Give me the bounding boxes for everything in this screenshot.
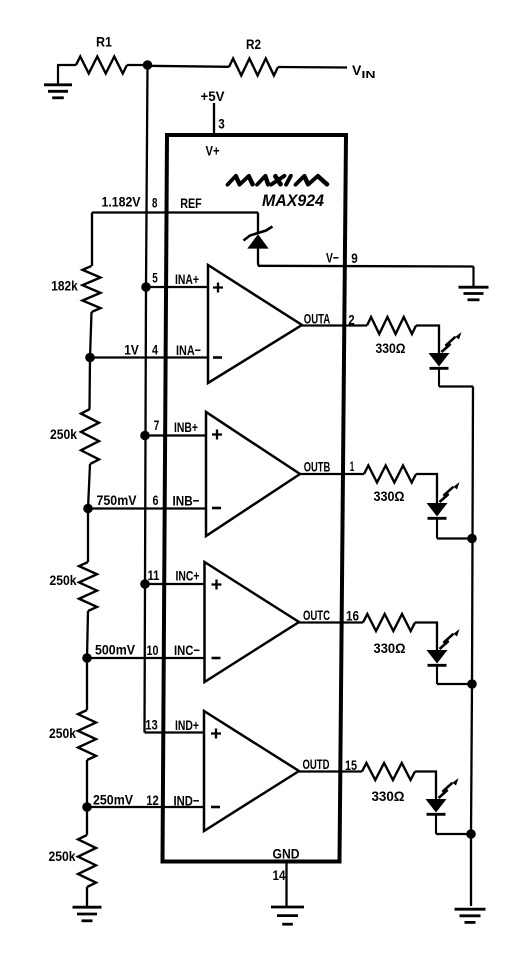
LED B — [427, 503, 448, 517]
LED D — [426, 799, 447, 813]
wire junction to comparator + inputs (vertical) — [145, 65, 148, 733]
ground (LED rail bottom) — [455, 909, 486, 922]
resistor 250k (3) — [78, 710, 96, 760]
wire LED cathode rail (right) — [471, 387, 473, 907]
svg-text:9: 9 — [351, 250, 358, 266]
wire node to R2 — [147, 66, 229, 67]
node INC+ junction — [140, 579, 150, 589]
svg-text:250k: 250k — [49, 848, 76, 864]
wire 250k-1 to 750mV tap — [88, 464, 90, 509]
LED C — [427, 650, 448, 664]
ground (ladder bottom) — [73, 907, 102, 921]
wire 250k-3 to 250mV tap — [86, 760, 88, 807]
resistor 250k (4) — [78, 835, 96, 887]
wire REF corner to 182k — [91, 213, 93, 267]
wire LED B to rail — [437, 537, 472, 539]
svg-text:V+: V+ — [206, 143, 220, 159]
svg-text:INB+: INB+ — [174, 419, 198, 435]
wire LED D to rail — [436, 833, 471, 835]
resistor 330ohm A — [367, 317, 416, 334]
op-amp IC U1 MAX924 package outline — [163, 135, 347, 862]
svg-text:750mV: 750mV — [97, 492, 138, 508]
wire LED A to rail — [439, 385, 473, 387]
svg-text:IND−: IND− — [174, 793, 200, 809]
wire OUTD (pin 15) — [299, 770, 362, 772]
svg-text:OUTB: OUTB — [304, 459, 331, 475]
resistor R1 — [76, 57, 127, 74]
wire LED C to rail — [437, 683, 472, 685]
wire IND- 250mV (pin 12) — [87, 806, 204, 808]
svg-text:6: 6 — [153, 492, 159, 508]
wire INB- 750mV (pin 6) — [88, 507, 206, 509]
wire +5V to pin 3 — [213, 103, 215, 134]
svg-text:INC−: INC− — [174, 642, 200, 658]
resistor 250k (1) — [81, 409, 99, 464]
op-amp comparator D — [204, 711, 299, 831]
node 750mV tap — [83, 504, 93, 514]
svg-text:8: 8 — [152, 195, 158, 211]
node 250mV tap — [82, 802, 92, 812]
ground (IC GND) — [271, 907, 304, 924]
wire 250k-4 to ground — [86, 887, 88, 907]
svg-text:IN: IN — [362, 70, 376, 81]
svg-text:+5V: +5V — [201, 88, 226, 104]
wire GND (pin 14) to ground — [285, 861, 287, 906]
resistor 330ohm C — [363, 614, 415, 631]
svg-text:OUTC: OUTC — [303, 607, 330, 623]
svg-text:16: 16 — [346, 608, 359, 624]
svg-text:1V: 1V — [124, 342, 139, 358]
svg-text:13: 13 — [145, 717, 158, 733]
svg-text:REF: REF — [180, 195, 202, 211]
svg-text:1: 1 — [350, 458, 355, 474]
node LED D / rail junction — [466, 829, 476, 839]
ground (V-) — [472, 267, 474, 287]
svg-text:330Ω: 330Ω — [374, 640, 406, 656]
wire 330ohm A to LED A — [416, 326, 439, 354]
svg-text:15: 15 — [345, 757, 357, 773]
resistor 250k (2) — [79, 562, 97, 611]
svg-text:5: 5 — [152, 270, 158, 286]
wire INB+ (pin 7) — [145, 434, 206, 436]
wire 750mV tap to 250k-2 — [87, 509, 89, 563]
svg-text:V−: V− — [326, 250, 339, 266]
node INA+ junction — [141, 282, 151, 292]
svg-text:INA+: INA+ — [175, 271, 199, 287]
svg-text:INB−: INB− — [173, 493, 200, 509]
resistor 330ohm B — [364, 466, 416, 483]
wire 250k-2 to 500mV tap — [87, 611, 88, 658]
svg-text:330Ω: 330Ω — [372, 788, 405, 804]
svg-text:4: 4 — [152, 342, 158, 358]
resistor 182k — [83, 266, 101, 312]
node 500mV tap — [82, 653, 92, 663]
svg-text:330Ω: 330Ω — [376, 340, 406, 356]
node R1/R2 junction — [143, 60, 153, 70]
node 1V tap — [85, 353, 95, 363]
svg-text:330Ω: 330Ω — [374, 488, 405, 504]
wire OUTB (pin 1) — [300, 473, 364, 475]
wire 330ohm C to LED C — [415, 623, 437, 651]
svg-text:INA−: INA− — [176, 342, 201, 358]
MAXIM logo — [228, 176, 329, 185]
wire 250mV tap to 250k-4 — [86, 807, 88, 835]
svg-text:11: 11 — [148, 567, 160, 583]
svg-text:OUTA: OUTA — [304, 311, 331, 327]
svg-text:10: 10 — [147, 642, 159, 658]
svg-text:250mV: 250mV — [93, 792, 134, 808]
svg-text:1.182V: 1.182V — [102, 194, 142, 210]
svg-text:182k: 182k — [51, 278, 78, 294]
op-amp comparator C — [205, 562, 300, 682]
resistor 330ohm D — [362, 763, 415, 780]
svg-text:R2: R2 — [246, 36, 261, 52]
wire REF (pin 8) to ladder and zener — [92, 211, 258, 213]
svg-text:12: 12 — [146, 792, 159, 808]
wire 330ohm D to LED D — [415, 772, 436, 800]
svg-text:3: 3 — [218, 116, 225, 132]
svg-text:OUTD: OUTD — [303, 756, 330, 772]
svg-text:INC+: INC+ — [176, 568, 200, 584]
wire ground to R1 — [57, 64, 76, 66]
wire zener to V- pin 9 and right ground — [258, 265, 474, 268]
svg-text:R1: R1 — [96, 34, 112, 50]
zener reference diode — [257, 213, 259, 235]
wire 182k to 1V tap — [90, 312, 92, 358]
svg-text:MAX924: MAX924 — [262, 192, 324, 210]
wire OUTA (pin 2) — [302, 324, 367, 326]
ground (input divider, top left) — [57, 65, 59, 84]
node LED C / rail junction — [467, 679, 477, 689]
op-amp comparator A — [208, 265, 302, 383]
resistor R2 — [229, 59, 278, 76]
node LED B / rail junction — [467, 534, 477, 544]
svg-text:GND: GND — [273, 846, 300, 862]
wire R1 to node — [127, 64, 148, 66]
svg-text:7: 7 — [154, 417, 160, 433]
svg-text:250k: 250k — [50, 572, 77, 588]
wire IND+ (pin 13) — [145, 731, 205, 733]
wire OUTC (pin 16) — [299, 621, 363, 623]
svg-text:250k: 250k — [50, 426, 77, 442]
wire INC- 500mV (pin 10) — [87, 657, 205, 659]
wire INC+ (pin 11) — [145, 583, 205, 585]
wire 500mV tap to 250k-3 — [86, 658, 88, 710]
svg-text:2: 2 — [348, 312, 354, 328]
svg-text:500mV: 500mV — [95, 642, 136, 658]
svg-text:V: V — [352, 62, 362, 78]
wire INA+ (pin 5) — [146, 286, 208, 288]
wire INA- 1V (pin 4) — [90, 356, 208, 358]
svg-text:250k: 250k — [49, 725, 76, 741]
svg-text:IND+: IND+ — [175, 717, 199, 733]
wire R2 to VIN — [278, 66, 347, 69]
node INB+ junction — [140, 431, 150, 441]
wire 330ohm B to LED B — [416, 474, 437, 503]
svg-text:14: 14 — [273, 867, 286, 883]
wire 1V tap to 250k-1 — [88, 358, 91, 410]
LED A — [429, 353, 450, 367]
op-amp comparator B — [206, 412, 300, 536]
